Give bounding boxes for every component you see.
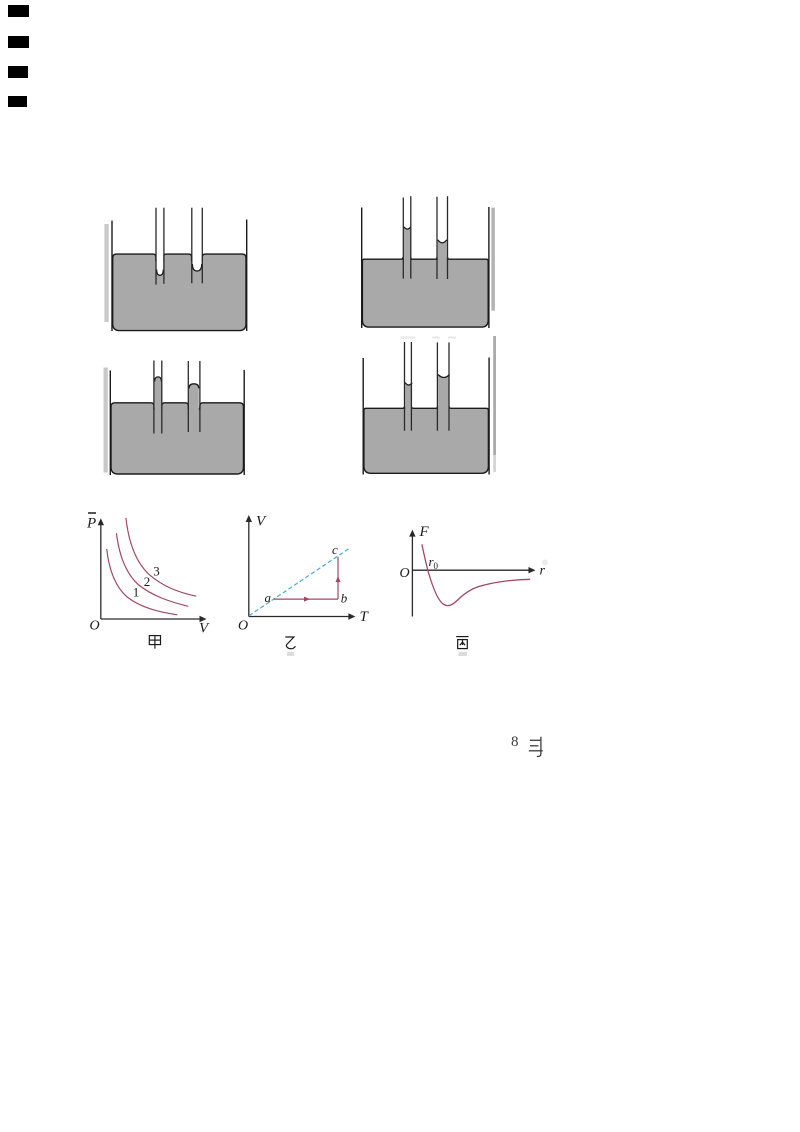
left gray stripe C bbox=[104, 367, 108, 472]
graphs strip bbox=[80, 512, 556, 657]
beaker D left wall bbox=[362, 358, 364, 474]
tube A2 walls bbox=[190, 208, 192, 284]
svg-text:2: 2 bbox=[144, 574, 151, 589]
dome C2 bbox=[189, 383, 199, 388]
beaker D right wall bbox=[488, 358, 490, 475]
gray mark under yi bbox=[287, 651, 294, 655]
process a to b bbox=[274, 598, 338, 600]
liquid body A bbox=[112, 254, 245, 330]
svg-text:O: O bbox=[238, 618, 248, 633]
svg-text:1: 1 bbox=[133, 584, 140, 599]
isotherm curve 3 bbox=[126, 517, 196, 595]
tube A1 interior (depressed) bbox=[156, 207, 163, 275]
liquid body C bbox=[111, 402, 243, 473]
graph yi V axis bbox=[246, 515, 252, 616]
tube C1 walls bbox=[153, 360, 155, 433]
label jia bbox=[149, 635, 160, 648]
tube B2 walls bbox=[436, 197, 438, 279]
meniscus A1 bbox=[156, 270, 163, 276]
label bing bbox=[456, 636, 468, 648]
svg-text:b: b bbox=[341, 590, 348, 605]
tiny text fragment bbox=[509, 733, 549, 761]
svg-text:3: 3 bbox=[153, 563, 160, 578]
graph bing F axis bbox=[409, 529, 415, 616]
process b to c bbox=[337, 556, 339, 598]
tube B1 walls bbox=[403, 198, 405, 279]
meniscus B1 bbox=[404, 227, 411, 229]
svg-text:F: F bbox=[418, 524, 429, 540]
isotherm curve 1 bbox=[107, 549, 178, 615]
beaker diagram C (bottom-left, risen tubes, convex domes) bbox=[103, 352, 247, 478]
isotherm curve 2 bbox=[116, 533, 188, 606]
beaker C right wall bbox=[244, 369, 246, 474]
left edge text fragment 1 bbox=[8, 5, 29, 17]
right gray stripe D bbox=[493, 336, 496, 455]
tube D1 walls bbox=[403, 342, 405, 431]
beaker A right wall bbox=[245, 220, 247, 331]
risen column C2 (dome) bbox=[189, 383, 199, 411]
tube A1 walls bbox=[155, 208, 157, 285]
left gray stripe A bbox=[104, 224, 108, 322]
right gray stripe B bbox=[492, 208, 495, 311]
faint tube top marks D bbox=[400, 336, 415, 338]
svg-text:O: O bbox=[90, 618, 100, 633]
beaker diagram D (bottom-right, risen tubes, wide tube higher) bbox=[360, 336, 496, 479]
beaker B left wall bbox=[361, 208, 363, 328]
risen column B2 bbox=[438, 240, 447, 261]
svg-text:c: c bbox=[332, 542, 338, 557]
top edge tick bbox=[88, 512, 96, 514]
beaker diagram B (top-right, risen tubes, concave menisci) bbox=[351, 191, 495, 335]
risen column B1 bbox=[404, 227, 411, 261]
graph bing r axis bbox=[412, 567, 535, 573]
tube C2 walls bbox=[188, 360, 190, 431]
liquid body D bbox=[364, 406, 488, 473]
graph yi T axis bbox=[249, 613, 356, 619]
svg-text:O: O bbox=[399, 566, 409, 581]
svg-text:a: a bbox=[265, 590, 272, 605]
label yi bbox=[285, 637, 295, 649]
dashed line through origin bbox=[249, 548, 349, 615]
risen column C1 (dome) bbox=[155, 376, 162, 411]
meniscus D2 bbox=[438, 374, 449, 377]
risen column D1 bbox=[405, 383, 412, 410]
meniscus A2 bbox=[192, 264, 201, 271]
risen column D2 bbox=[438, 375, 449, 410]
molecular force curve bbox=[422, 544, 530, 605]
gray mark under bing bbox=[458, 651, 466, 655]
left edge text fragment 4 bbox=[8, 96, 27, 107]
left edge text fragment 2 bbox=[8, 36, 29, 48]
dome C1 bbox=[155, 376, 162, 381]
tube D2 walls bbox=[436, 342, 438, 430]
faint blob right of r bbox=[542, 559, 548, 565]
svg-text:P: P bbox=[86, 515, 96, 531]
beaker A left wall bbox=[111, 221, 113, 331]
beaker B right wall bbox=[488, 207, 490, 328]
meniscus D1 bbox=[405, 383, 412, 385]
left edge text fragment 3 bbox=[8, 66, 28, 78]
beaker C left wall bbox=[110, 370, 112, 474]
graph jia P axis bbox=[98, 518, 104, 619]
beaker diagram A (top-left, depressed tubes) bbox=[104, 207, 255, 336]
tube A2 interior (depressed) bbox=[192, 207, 201, 271]
meniscus B2 bbox=[438, 240, 447, 243]
graph jia V axis bbox=[101, 615, 207, 621]
svg-text:r: r bbox=[539, 563, 545, 578]
liquid body B bbox=[363, 257, 489, 327]
svg-text:0: 0 bbox=[433, 561, 438, 571]
